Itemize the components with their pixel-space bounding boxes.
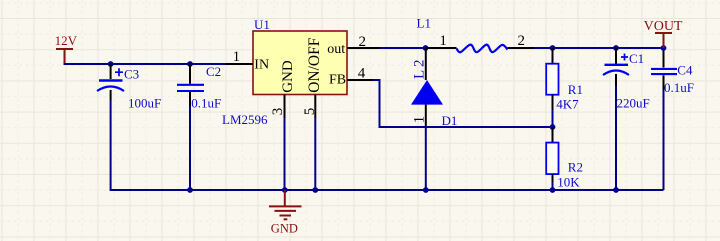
pin 1 IN — [226, 49, 253, 65]
capacitor C2 — [177, 64, 221, 111]
op-amp U1 LM2596 body — [222, 17, 347, 127]
node FB junction — [550, 124, 556, 130]
pin 4 FB — [347, 65, 373, 81]
node C2 top junction — [187, 61, 193, 67]
svg-text:GND: GND — [280, 60, 296, 93]
wire D1 anode to bottom rail — [425, 125, 427, 190]
wire R2 to bottom rail — [552, 182, 554, 190]
wire bottom rail — [111, 189, 664, 190]
diode D1 (designator L2) — [411, 48, 457, 128]
svg-text:C2: C2 — [206, 64, 221, 79]
capacitor C1 — [603, 48, 650, 111]
svg-text:R2: R2 — [568, 160, 583, 175]
svg-text:L1: L1 — [417, 16, 431, 31]
svg-text:0.1uF: 0.1uF — [191, 96, 221, 111]
capacitor C4 — [651, 48, 694, 95]
resistor R1 — [546, 48, 583, 111]
wire 12V to IC IN — [64, 63, 227, 65]
svg-text:D1: D1 — [442, 113, 458, 128]
pin 5 ON/OFF — [302, 95, 318, 119]
power port VOUT — [644, 19, 683, 48]
wire C1 to bottom rail — [615, 86, 617, 190]
wire pin5 to bottom rail — [314, 118, 316, 190]
svg-text:FB: FB — [329, 72, 346, 87]
svg-text:L: L — [412, 70, 428, 79]
node D1 bottom — [423, 187, 429, 193]
power port 12V — [55, 33, 78, 64]
resistor R2 — [546, 127, 583, 189]
node C1 bottom — [613, 187, 619, 193]
node R2 bottom — [550, 187, 556, 193]
wire C2 down to bottom rail — [189, 106, 191, 190]
node R1 top junction — [550, 45, 556, 51]
svg-text:10K: 10K — [557, 174, 580, 189]
pin 2 out — [347, 34, 380, 50]
svg-text:U1: U1 — [254, 17, 270, 32]
svg-text:ON/OFF: ON/OFF — [306, 37, 323, 93]
svg-text:4K7: 4K7 — [556, 96, 579, 111]
node C3 top junction — [108, 61, 114, 67]
svg-text:0.1uF: 0.1uF — [664, 80, 694, 95]
svg-text:2: 2 — [412, 60, 428, 68]
svg-text:IN: IN — [254, 57, 269, 72]
svg-text:12V: 12V — [55, 33, 78, 48]
wire C4 to bottom rail corner — [663, 90, 665, 190]
inductor L1 — [417, 16, 535, 53]
node pin5 bottom — [312, 187, 318, 193]
svg-text:out: out — [327, 42, 345, 57]
svg-text:C3: C3 — [124, 66, 139, 81]
svg-text:VOUT: VOUT — [644, 19, 683, 34]
svg-text:100uF: 100uF — [128, 96, 161, 111]
node C1 top junction — [613, 45, 619, 51]
svg-text:C1: C1 — [629, 51, 644, 66]
svg-text:1: 1 — [439, 33, 447, 49]
node GND junction — [282, 187, 288, 193]
svg-text:GND: GND — [271, 222, 298, 236]
node VOUT junction — [661, 45, 667, 51]
svg-text:R1: R1 — [568, 82, 583, 97]
wire FB net — [373, 80, 553, 127]
wire L1 to output node — [534, 47, 664, 49]
svg-text:C4: C4 — [677, 63, 693, 78]
svg-text:3: 3 — [270, 108, 286, 116]
svg-text:LM2596: LM2596 — [222, 112, 268, 127]
svg-text:1: 1 — [412, 116, 428, 124]
svg-text:4: 4 — [358, 65, 366, 81]
capacitor C3 — [97, 64, 161, 111]
node C2 bottom — [187, 187, 193, 193]
ground — [269, 190, 302, 236]
node A switch junction — [423, 45, 429, 51]
pin 3 GND — [270, 95, 286, 119]
svg-text:220uF: 220uF — [617, 96, 650, 111]
wire R1 to FB node — [552, 110, 554, 127]
wire out pin to node A — [380, 47, 426, 49]
wire C3 down to bottom rail — [110, 100, 112, 189]
svg-text:1: 1 — [233, 49, 241, 65]
wire pin3 to bottom rail — [284, 118, 286, 190]
svg-text:5: 5 — [302, 108, 318, 116]
svg-text:2: 2 — [518, 33, 526, 49]
svg-text:2: 2 — [359, 34, 367, 50]
